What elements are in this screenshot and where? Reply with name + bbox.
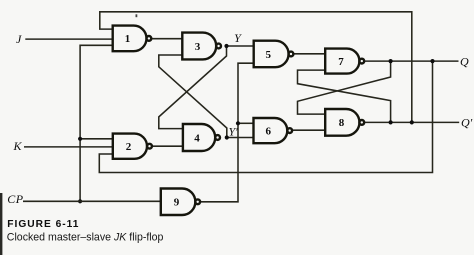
wire CP input line bbox=[23, 200, 161, 202]
svg-text:Clocked master–slave JK flip-f: Clocked master–slave JK flip-flop bbox=[7, 232, 164, 244]
wire Q cross-couple to gate 8 input bbox=[298, 61, 391, 114]
svg-text:6: 6 bbox=[266, 125, 272, 137]
nand gate 9 clock inverter bbox=[161, 189, 200, 216]
wire Y' to gate 6 bbox=[227, 137, 254, 139]
wire bottom feedback Q to gate 2 bbox=[99, 61, 432, 172]
wire CP vertical branch to gates 1 and 2 bbox=[80, 45, 113, 201]
junction Q' feedback bbox=[410, 120, 414, 124]
svg-text:Q: Q bbox=[460, 54, 469, 68]
svg-text:3: 3 bbox=[195, 41, 201, 53]
nand gate 4 bbox=[183, 124, 220, 151]
nand gate 3 bbox=[182, 33, 221, 60]
nand gate 5 bbox=[254, 41, 294, 67]
wire Y cross-couple to gate 4 input bbox=[159, 46, 227, 129]
wire Y to gate 5 bbox=[227, 45, 254, 47]
svg-text:8: 8 bbox=[339, 117, 345, 129]
wire J input bbox=[25, 38, 112, 40]
wire Y' cross-couple to gate 3 input bbox=[159, 55, 227, 138]
wire Q' output bbox=[364, 121, 459, 123]
junction Q crossing bbox=[389, 59, 393, 63]
wire gate6 output to gate8 bbox=[292, 129, 325, 131]
svg-text:4: 4 bbox=[194, 132, 200, 144]
wire top feedback Q' to gate 1 bbox=[100, 12, 412, 123]
junction CP' gate6 bbox=[236, 121, 240, 125]
junction Q' crossing bbox=[389, 120, 393, 124]
svg-text:CP: CP bbox=[7, 192, 24, 206]
nand gate 8 bbox=[325, 109, 364, 136]
svg-text:K: K bbox=[12, 139, 22, 153]
wire Q output bbox=[364, 60, 458, 62]
svg-text:5: 5 bbox=[265, 49, 271, 61]
svg-text:9: 9 bbox=[174, 197, 180, 209]
svg-text:1: 1 bbox=[125, 33, 131, 45]
svg-text:FIGURE 6-11: FIGURE 6-11 bbox=[7, 219, 79, 230]
wire gate2 output to gate4 bbox=[152, 145, 183, 147]
wire gate9 output CP' rising to gates 5 and 6 bbox=[200, 63, 254, 202]
junction Q feedback bbox=[430, 59, 434, 63]
junction CP-gate2 bbox=[78, 137, 82, 141]
nand gate 6 bbox=[254, 118, 293, 143]
junction Y' bbox=[225, 135, 229, 139]
junction Y bbox=[224, 44, 228, 48]
nand gate 7 bbox=[325, 49, 364, 74]
svg-text:2: 2 bbox=[126, 141, 132, 153]
junction CP line bbox=[78, 199, 82, 203]
svg-text:7: 7 bbox=[338, 56, 344, 68]
svg-text:Y′: Y′ bbox=[229, 125, 239, 139]
wire K input bbox=[24, 146, 113, 148]
nand gate 1 bbox=[113, 26, 152, 52]
svg-text:J: J bbox=[16, 32, 22, 46]
scan speck on top wire bbox=[136, 14, 138, 17]
svg-text:Q′: Q′ bbox=[461, 116, 473, 130]
wire CP branch to gate 2 bbox=[80, 138, 113, 140]
wire gate1 output to gate3 bbox=[151, 38, 182, 40]
nand gate 2 bbox=[113, 134, 152, 159]
wire CP' branch to gate 6 bbox=[238, 122, 254, 124]
scan artifact left page edge bbox=[0, 193, 2, 255]
wire Q' cross-couple to gate 7 input bbox=[298, 70, 391, 122]
wire gate5 output to gate7 bbox=[293, 53, 325, 55]
